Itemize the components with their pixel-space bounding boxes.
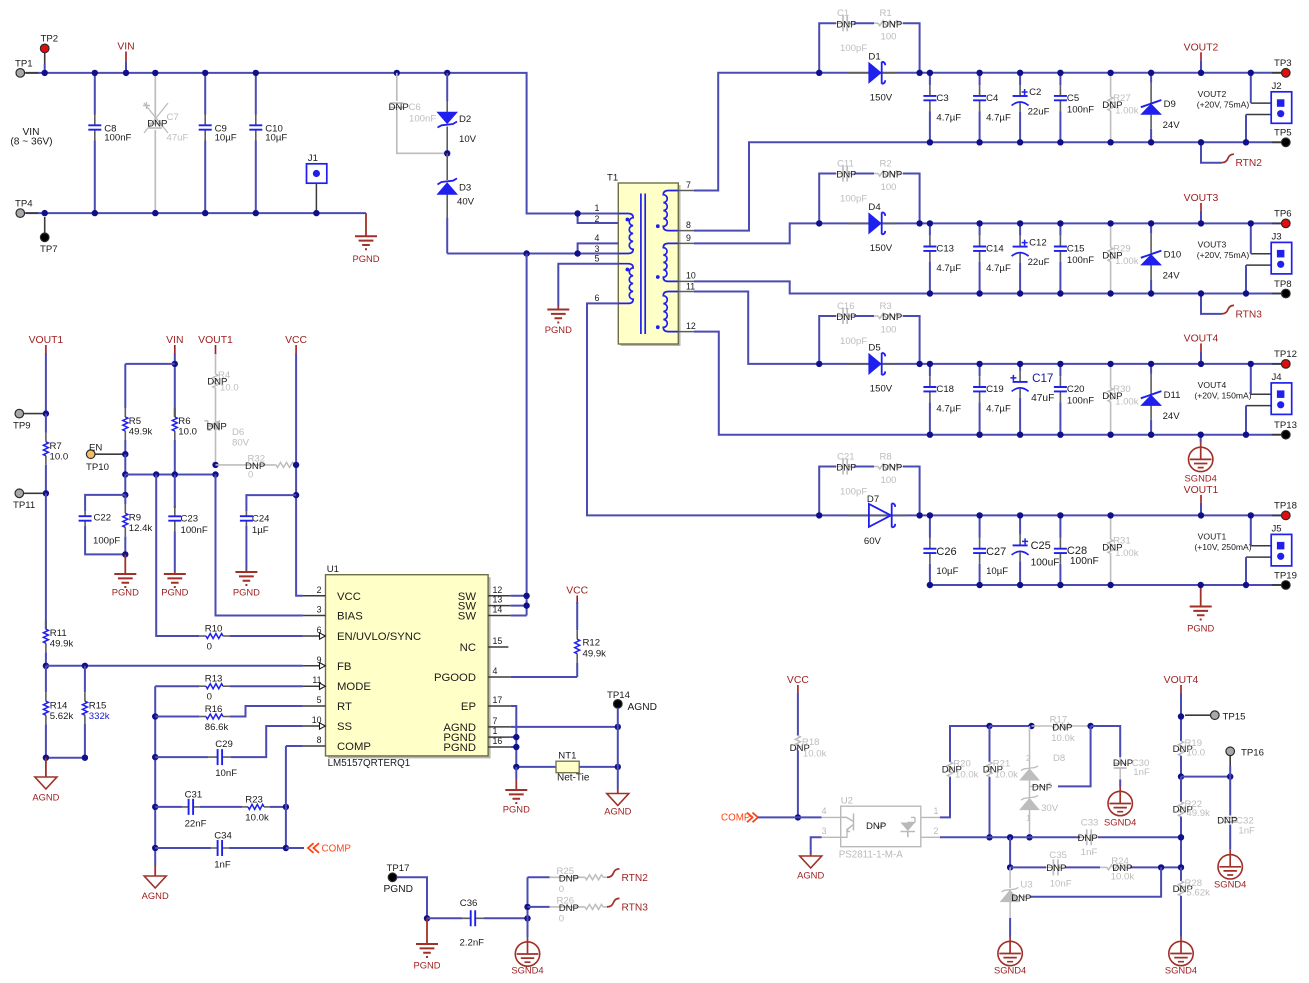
junction xyxy=(212,471,218,477)
net label VOUT4 xyxy=(1184,333,1219,364)
svg-text:SGND4: SGND4 xyxy=(1165,965,1197,976)
junction xyxy=(153,471,159,477)
pin 3 of T1 xyxy=(587,244,618,254)
pin 1 of T1 xyxy=(587,203,618,214)
junction xyxy=(1198,290,1204,296)
svg-text:(8 ~ 36V): (8 ~ 36V) xyxy=(10,137,52,148)
wire pin8 to VOUT2 return xyxy=(694,142,930,230)
capacitor C12 xyxy=(1012,223,1050,293)
svg-text:J4: J4 xyxy=(1272,372,1283,383)
svg-text:10.0: 10.0 xyxy=(1186,747,1205,758)
svg-text:24V: 24V xyxy=(1163,270,1181,281)
wire xyxy=(854,173,874,175)
svg-text:TP16: TP16 xyxy=(1241,747,1264,758)
junction xyxy=(152,754,158,760)
wire FB net xyxy=(46,665,303,667)
net label VOUT3 xyxy=(1184,193,1219,224)
zener diode D11 xyxy=(1141,364,1181,435)
svg-text:C22: C22 xyxy=(94,513,112,524)
svg-text:DNP: DNP xyxy=(1113,758,1133,769)
capacitor C26 xyxy=(923,515,958,585)
svg-text:10µF: 10µF xyxy=(936,566,958,577)
svg-text:100: 100 xyxy=(881,325,897,336)
svg-text:100nF: 100nF xyxy=(1070,556,1099,567)
wire xyxy=(903,23,920,73)
svg-text:PGND: PGND xyxy=(413,960,440,971)
junction xyxy=(1148,139,1154,145)
svg-text:PGND: PGND xyxy=(503,804,530,815)
wire xyxy=(397,877,427,918)
svg-text:22uF: 22uF xyxy=(1028,257,1050,268)
connector J4 xyxy=(1246,372,1292,415)
net flag RTN2 xyxy=(1201,142,1262,169)
svg-text:12: 12 xyxy=(493,585,503,595)
svg-text:100nF: 100nF xyxy=(1067,255,1094,266)
svg-text:DNP: DNP xyxy=(1217,815,1237,826)
svg-text:DNP: DNP xyxy=(1102,542,1122,553)
pin 1 (PGND) of U1 xyxy=(443,726,510,744)
svg-text:TP2: TP2 xyxy=(41,34,59,45)
junction xyxy=(43,755,49,761)
capacitor C3 xyxy=(923,73,961,143)
junction xyxy=(1107,139,1113,145)
resistor R19 (DNP) xyxy=(1173,738,1205,758)
wire xyxy=(511,726,618,728)
resistor R10 xyxy=(199,624,230,653)
svg-text:C7: C7 xyxy=(167,112,179,123)
svg-text:13: 13 xyxy=(493,595,503,605)
svg-text:4.7µF: 4.7µF xyxy=(936,404,961,415)
svg-text:VOUT1: VOUT1 xyxy=(198,335,233,346)
junction xyxy=(1178,773,1184,779)
svg-text:8: 8 xyxy=(686,220,691,230)
svg-text:LM5157QRTERQ1: LM5157QRTERQ1 xyxy=(328,758,411,769)
svg-text:1µF: 1µF xyxy=(252,525,269,536)
svg-text:100pF: 100pF xyxy=(840,43,867,54)
wire xyxy=(854,466,874,468)
svg-text:22nF: 22nF xyxy=(185,819,207,830)
svg-text:150V: 150V xyxy=(870,384,893,395)
svg-text:AGND: AGND xyxy=(142,890,169,901)
junction xyxy=(122,471,128,477)
wire xyxy=(1250,223,1252,253)
svg-text:TP10: TP10 xyxy=(86,462,109,473)
svg-text:RT: RT xyxy=(337,701,352,713)
svg-text:DNP: DNP xyxy=(882,19,902,30)
svg-text:10.0k: 10.0k xyxy=(803,748,827,759)
junction xyxy=(283,845,289,851)
svg-text:PGND: PGND xyxy=(545,324,572,335)
junction xyxy=(1248,512,1254,518)
capacitor C1 (DNP) xyxy=(836,8,867,54)
wire xyxy=(45,493,47,629)
junction xyxy=(1057,432,1063,438)
svg-text:5.62k: 5.62k xyxy=(50,711,74,722)
pin 13 (SW) of U1 xyxy=(458,595,511,613)
svg-text:10: 10 xyxy=(686,271,696,281)
wire xyxy=(484,917,528,919)
svg-text:10V: 10V xyxy=(459,134,477,145)
wire xyxy=(45,354,47,414)
capacitor C11 (DNP) xyxy=(836,159,867,205)
wire xyxy=(617,708,619,789)
junction xyxy=(1243,290,1249,296)
junction xyxy=(283,804,289,810)
svg-text:D2: D2 xyxy=(459,114,471,125)
svg-text:15: 15 xyxy=(493,636,503,646)
junction xyxy=(444,70,450,76)
svg-text:100nF: 100nF xyxy=(181,525,208,536)
test point TP14 xyxy=(607,690,631,708)
junction xyxy=(1198,582,1204,588)
ground PGND xyxy=(161,572,188,598)
junction xyxy=(1198,512,1204,518)
svg-text:D4: D4 xyxy=(868,202,881,213)
svg-text:D1: D1 xyxy=(868,52,880,63)
ground AGND xyxy=(142,866,169,901)
svg-text:100nF: 100nF xyxy=(409,114,436,125)
svg-text:47uF: 47uF xyxy=(1031,393,1054,404)
svg-text:PGND: PGND xyxy=(161,587,188,598)
svg-text:C12: C12 xyxy=(1029,238,1047,249)
junction xyxy=(1248,70,1254,76)
svg-text:1: 1 xyxy=(1026,813,1031,823)
svg-text:DNP: DNP xyxy=(559,903,579,914)
junction xyxy=(1017,432,1023,438)
wire xyxy=(230,635,303,637)
wire xyxy=(156,475,199,637)
zener diode D9 xyxy=(1141,73,1180,143)
junction xyxy=(1107,290,1113,296)
svg-text:1nF: 1nF xyxy=(214,860,231,871)
svg-text:R8: R8 xyxy=(880,452,892,463)
svg-text:COMP: COMP xyxy=(337,741,371,753)
svg-text:5: 5 xyxy=(317,695,322,705)
svg-text:R10: R10 xyxy=(205,624,223,635)
svg-text:SGND4: SGND4 xyxy=(511,965,543,976)
resistor R18 (DNP) xyxy=(790,736,827,760)
resistor R31 (DNP) xyxy=(1102,515,1138,585)
resistor R21 (DNP) xyxy=(983,726,1018,837)
svg-text:BIAS: BIAS xyxy=(337,611,363,623)
capacitor C23 xyxy=(168,506,208,573)
svg-text:10.0k: 10.0k xyxy=(1051,733,1075,744)
svg-text:80V: 80V xyxy=(232,438,250,449)
pin 5 (RT) of U1 xyxy=(303,695,352,713)
svg-text:TP12: TP12 xyxy=(1274,349,1297,360)
resistor R28 (DNP) xyxy=(1173,867,1210,898)
junction xyxy=(1148,290,1154,296)
wire xyxy=(174,475,176,509)
wire pin10 to VOUT3 return xyxy=(694,281,930,293)
wire xyxy=(1245,115,1247,143)
svg-text:TP13: TP13 xyxy=(1274,420,1297,431)
svg-text:C25: C25 xyxy=(1031,540,1051,552)
junction xyxy=(524,904,530,910)
junction xyxy=(1148,361,1154,367)
junction xyxy=(122,492,128,498)
wire xyxy=(427,917,462,919)
svg-text:EN/UVLO/SYNC: EN/UVLO/SYNC xyxy=(337,631,421,643)
wire xyxy=(903,316,920,364)
resistor R14 xyxy=(43,666,73,758)
svg-text:VOUT2: VOUT2 xyxy=(1198,89,1227,99)
svg-text:DNP: DNP xyxy=(389,102,409,113)
svg-text:R21: R21 xyxy=(993,759,1011,770)
junction xyxy=(1248,220,1254,226)
wire xyxy=(1250,73,1252,103)
svg-text:DNP: DNP xyxy=(207,422,227,433)
resistor R30 (DNP) xyxy=(1102,364,1138,435)
svg-text:4: 4 xyxy=(493,666,498,676)
svg-text:VOUT1: VOUT1 xyxy=(29,335,64,346)
wire xyxy=(155,716,199,718)
junction xyxy=(1107,512,1113,518)
wire xyxy=(528,906,550,908)
svg-text:C13: C13 xyxy=(936,244,954,255)
junction xyxy=(513,734,519,740)
svg-text:R12: R12 xyxy=(583,638,601,649)
capacitor C20 xyxy=(1054,364,1094,435)
junction xyxy=(92,210,98,216)
svg-text:RTN3: RTN3 xyxy=(1236,309,1263,320)
pin 2 (VCC) of U1 xyxy=(303,585,361,603)
svg-text:C11: C11 xyxy=(837,159,854,170)
junction xyxy=(916,512,922,518)
svg-text:R11: R11 xyxy=(50,628,67,639)
svg-text:U2: U2 xyxy=(841,796,853,807)
junction xyxy=(927,290,933,296)
test point TP12 xyxy=(1272,349,1297,368)
svg-text:(+20V, 75mA): (+20V, 75mA) xyxy=(1197,250,1250,260)
zener diode D10 xyxy=(1141,223,1181,293)
svg-text:J5: J5 xyxy=(1272,523,1282,534)
net flag RTN2 xyxy=(607,869,648,884)
text VOUT3 output rating xyxy=(1197,240,1250,260)
capacitor C4 xyxy=(973,73,1011,143)
capacitor C6 (DNP) xyxy=(389,73,448,153)
svg-text:R6: R6 xyxy=(178,416,190,427)
capacitor C10 xyxy=(249,73,287,213)
svg-text:0: 0 xyxy=(559,884,564,895)
svg-text:24V: 24V xyxy=(1163,120,1181,131)
svg-text:100pF: 100pF xyxy=(93,536,120,547)
wire xyxy=(758,816,822,818)
test point TP4 xyxy=(15,199,38,218)
svg-text:150V: 150V xyxy=(870,243,893,254)
test point TP16 xyxy=(1226,747,1264,766)
junction xyxy=(1178,834,1184,840)
svg-text:0: 0 xyxy=(207,692,212,703)
ground PGND xyxy=(1187,585,1214,634)
wire xyxy=(578,213,619,215)
svg-text:4.7µF: 4.7µF xyxy=(936,263,961,274)
junction xyxy=(444,150,450,156)
resistor R25 (DNP) xyxy=(550,866,607,895)
wire xyxy=(200,806,242,808)
capacitor C31 xyxy=(182,790,207,830)
test point TP8 xyxy=(1272,279,1292,298)
text VOUT2 output rating xyxy=(1197,89,1250,109)
svg-text:10nF: 10nF xyxy=(1050,879,1072,890)
svg-text:VOUT1: VOUT1 xyxy=(1198,532,1227,542)
svg-text:DNP: DNP xyxy=(836,312,856,323)
junction xyxy=(1178,864,1184,870)
pin 10 of T1 xyxy=(678,271,700,282)
wire VOUT4 rail xyxy=(819,363,1281,365)
svg-text:VOUT1: VOUT1 xyxy=(1184,485,1219,496)
svg-text:AGND: AGND xyxy=(797,870,824,881)
wire VOUT1 return rail xyxy=(930,584,1282,586)
wire xyxy=(447,253,577,255)
resistor R1 (DNP) xyxy=(874,8,903,43)
wire pin6 to VOUT1 rail xyxy=(587,303,819,515)
junction xyxy=(122,451,128,457)
svg-text:D11: D11 xyxy=(1164,390,1181,401)
junction xyxy=(152,845,158,851)
svg-text:3: 3 xyxy=(317,605,322,615)
junction xyxy=(82,663,88,669)
svg-text:49.9k: 49.9k xyxy=(1186,808,1210,819)
svg-text:VCC: VCC xyxy=(337,591,361,603)
svg-text:PGND: PGND xyxy=(384,884,413,895)
wire xyxy=(516,766,556,768)
svg-text:TP4: TP4 xyxy=(15,199,33,210)
wire xyxy=(1010,866,1046,868)
svg-text:5: 5 xyxy=(595,254,600,264)
svg-text:U1: U1 xyxy=(327,564,339,575)
junction xyxy=(1017,70,1023,76)
pin 5 of T1 xyxy=(587,254,618,264)
pin 9 of T1 xyxy=(678,233,700,243)
resistor R13 xyxy=(199,674,230,703)
svg-text:49.9k: 49.9k xyxy=(50,639,74,650)
svg-text:C18: C18 xyxy=(936,384,954,395)
junction xyxy=(927,361,933,367)
net flag RTN3 xyxy=(607,898,648,913)
capacitor C25 xyxy=(1012,515,1060,585)
capacitor C24 xyxy=(240,495,296,570)
svg-text:C6: C6 xyxy=(409,102,421,113)
diode D7 xyxy=(848,494,907,547)
junction xyxy=(1017,220,1023,226)
test point TP5 xyxy=(1272,128,1292,147)
net label VIN xyxy=(166,335,183,354)
junction xyxy=(927,432,933,438)
svg-text:VCC: VCC xyxy=(285,335,307,346)
text VOUT4 output rating xyxy=(1194,380,1251,400)
wire xyxy=(286,745,303,747)
svg-text:R14: R14 xyxy=(50,701,68,712)
svg-text:PGND: PGND xyxy=(112,587,139,598)
svg-text:0: 0 xyxy=(248,470,253,481)
wire VIN top rail xyxy=(26,73,578,214)
wire VOUT1 rail xyxy=(819,514,1281,516)
junction xyxy=(43,410,49,416)
junction xyxy=(1026,834,1032,840)
junction xyxy=(1017,361,1023,367)
svg-text:8: 8 xyxy=(317,735,322,745)
svg-text:U3: U3 xyxy=(1020,879,1032,890)
ground SGND4 xyxy=(511,918,543,975)
optocoupler U2 PS2811-1-M-A (DNP) xyxy=(822,796,940,861)
junction xyxy=(816,361,822,367)
wire xyxy=(1245,406,1247,435)
junction xyxy=(1007,864,1013,870)
wire xyxy=(578,253,619,255)
svg-text:NC: NC xyxy=(460,642,476,654)
svg-text:FB: FB xyxy=(337,661,351,673)
capacitor C5 xyxy=(1054,73,1094,143)
svg-text:C35: C35 xyxy=(1049,850,1067,861)
test point TP1 xyxy=(15,58,38,77)
svg-text:AGND: AGND xyxy=(32,792,59,803)
junction xyxy=(253,70,259,76)
wire xyxy=(46,757,85,759)
pin 4 of T1 xyxy=(587,233,618,243)
junction xyxy=(1107,70,1113,76)
capacitor C17 xyxy=(1010,364,1054,435)
capacitor C13 xyxy=(923,223,961,293)
svg-text:0: 0 xyxy=(207,642,212,653)
svg-text:100pF: 100pF xyxy=(840,487,867,498)
capacitor C36 xyxy=(460,898,485,949)
pin 8 of T1 xyxy=(678,220,700,231)
junction xyxy=(82,755,88,761)
wire xyxy=(1009,837,1011,867)
svg-text:C33: C33 xyxy=(1081,818,1099,829)
svg-text:DNP: DNP xyxy=(1102,250,1122,261)
test point TP11 xyxy=(13,489,46,511)
svg-text:1: 1 xyxy=(595,203,600,213)
svg-text:60V: 60V xyxy=(864,536,882,547)
junction xyxy=(524,915,530,921)
svg-text:3: 3 xyxy=(1047,781,1052,791)
resistor R22 (DNP) xyxy=(1173,777,1210,820)
svg-text:DNP: DNP xyxy=(882,312,902,323)
resistor R8 (DNP) xyxy=(874,452,903,487)
svg-text:2: 2 xyxy=(934,826,939,836)
ground SGND4 xyxy=(1104,780,1136,828)
wire VOUT2 rail xyxy=(819,72,1281,74)
junction xyxy=(976,582,982,588)
svg-text:12: 12 xyxy=(686,321,696,331)
capacitor C18 xyxy=(923,364,961,435)
junction xyxy=(1107,432,1113,438)
wire xyxy=(515,767,517,779)
svg-text:VIN: VIN xyxy=(166,335,183,346)
svg-text:NT1: NT1 xyxy=(558,751,576,762)
wire xyxy=(124,475,126,495)
net flag COMP xyxy=(308,843,351,854)
svg-text:(+20V, 75mA): (+20V, 75mA) xyxy=(1197,99,1250,109)
connector J2 xyxy=(1246,81,1292,124)
svg-text:J3: J3 xyxy=(1272,231,1282,242)
capacitor C21 (DNP) xyxy=(836,452,867,498)
junction xyxy=(513,764,519,770)
svg-text:10.0k: 10.0k xyxy=(955,769,979,780)
capacitor C35 (DNP) xyxy=(1046,850,1072,890)
net label VCC xyxy=(566,586,588,604)
pin 8 (COMP) of U1 xyxy=(303,735,371,753)
svg-text:TP14: TP14 xyxy=(607,690,631,701)
junction xyxy=(513,744,519,750)
svg-text:10.0: 10.0 xyxy=(50,452,69,463)
test point TP17 xyxy=(387,863,410,882)
svg-text:47uF: 47uF xyxy=(167,133,189,144)
svg-text:D9: D9 xyxy=(1164,99,1176,110)
pin 6 of T1 xyxy=(587,293,618,303)
